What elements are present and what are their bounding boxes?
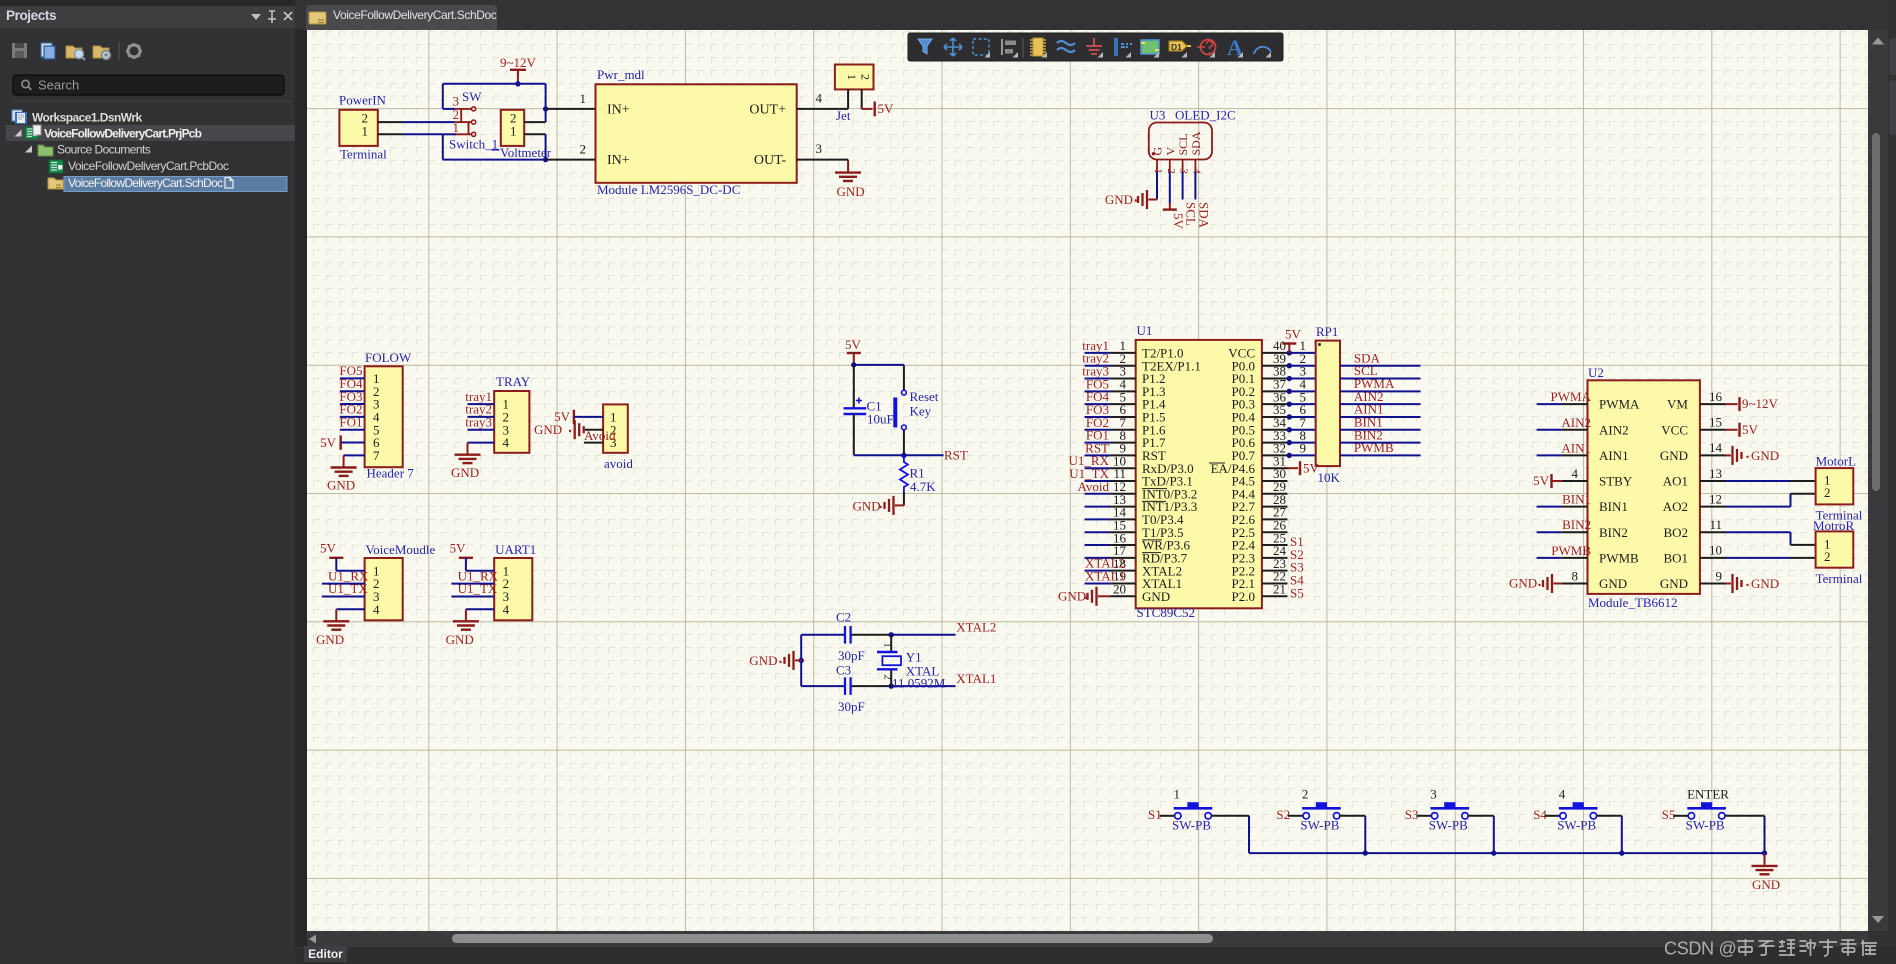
svg-text:U3: U3 <box>1150 108 1166 123</box>
svg-text:GND: GND <box>534 422 562 437</box>
svg-text:BO2: BO2 <box>1663 525 1688 540</box>
svg-text:5V: 5V <box>1303 461 1320 476</box>
svg-text:GND: GND <box>1751 448 1779 463</box>
svg-text:9~12V: 9~12V <box>1742 396 1779 411</box>
svg-text:PWMB: PWMB <box>1599 550 1639 565</box>
svg-text:Reset: Reset <box>910 389 939 404</box>
svg-text:12: 12 <box>1709 491 1722 506</box>
svg-text:1: 1 <box>1174 787 1181 802</box>
svg-text:PowerIN: PowerIN <box>339 93 387 108</box>
svg-text:S4: S4 <box>1533 807 1547 822</box>
svg-text:30pF: 30pF <box>838 699 865 714</box>
svg-text:Jet: Jet <box>836 108 851 123</box>
svg-text:5V: 5V <box>878 101 895 116</box>
svg-text:10uF: 10uF <box>867 412 894 427</box>
svg-text:11: 11 <box>1709 517 1722 532</box>
svg-text:5V: 5V <box>450 541 467 556</box>
svg-text:SW-PB: SW-PB <box>1686 818 1725 833</box>
svg-text:10K: 10K <box>1318 470 1341 485</box>
svg-text:tray3: tray3 <box>465 415 492 430</box>
svg-text:P2.0: P2.0 <box>1232 589 1255 604</box>
svg-text:PWMB: PWMB <box>1354 440 1394 455</box>
svg-text:UART1: UART1 <box>495 542 536 557</box>
svg-text:4.7K: 4.7K <box>910 479 936 494</box>
svg-text:5V: 5V <box>1171 213 1186 230</box>
svg-text:SW-PB: SW-PB <box>1172 818 1211 833</box>
svg-text:1: 1 <box>845 74 859 80</box>
svg-text:Switch_1: Switch_1 <box>449 137 498 152</box>
svg-text:BIN2: BIN2 <box>1599 525 1628 540</box>
svg-text:S1: S1 <box>1148 807 1162 822</box>
svg-text:1: 1 <box>510 123 517 138</box>
svg-text:OUT-: OUT- <box>754 153 786 168</box>
svg-text:STC89C52: STC89C52 <box>1137 605 1196 620</box>
svg-text:GND: GND <box>446 632 474 647</box>
svg-text:1: 1 <box>882 642 894 648</box>
svg-text:GND: GND <box>1509 575 1537 590</box>
svg-text:U1_TX: U1_TX <box>328 581 368 596</box>
svg-text:U1: U1 <box>1137 323 1153 338</box>
svg-text:U2: U2 <box>1588 365 1604 380</box>
svg-text:BIN1: BIN1 <box>1599 499 1628 514</box>
svg-text:PWMB: PWMB <box>1551 543 1591 558</box>
svg-text:4: 4 <box>503 435 510 450</box>
svg-text:3: 3 <box>1430 787 1437 802</box>
svg-text:TRAY: TRAY <box>496 374 531 389</box>
svg-text:GND: GND <box>327 478 355 493</box>
svg-text:IN+: IN+ <box>607 153 630 168</box>
svg-text:Avoid: Avoid <box>584 428 616 443</box>
svg-text:Terminal: Terminal <box>340 147 387 162</box>
svg-text:5V: 5V <box>1742 422 1759 437</box>
svg-text:1: 1 <box>362 123 369 138</box>
svg-text:13: 13 <box>1709 466 1722 481</box>
svg-text:VoiceFollowDeliveryCart.PrjPcb: VoiceFollowDeliveryCart.PrjPcb <box>44 127 202 141</box>
svg-text:STBY: STBY <box>1599 474 1633 489</box>
svg-text:10: 10 <box>1709 543 1722 558</box>
svg-text:GND: GND <box>1752 877 1780 892</box>
svg-text:5V: 5V <box>320 541 337 556</box>
svg-text:4: 4 <box>503 602 510 617</box>
svg-text:8: 8 <box>1572 568 1579 583</box>
svg-text:ENTER: ENTER <box>1687 787 1729 802</box>
svg-text:GND: GND <box>1105 192 1133 207</box>
svg-text:XTAL1: XTAL1 <box>1085 568 1125 583</box>
svg-text:GND: GND <box>1058 589 1086 604</box>
svg-text:Workspace1.DsnWrk: Workspace1.DsnWrk <box>32 111 142 125</box>
svg-text:AIN1: AIN1 <box>1561 440 1591 455</box>
svg-text:2: 2 <box>1824 549 1831 564</box>
svg-text:GND: GND <box>451 465 479 480</box>
svg-text:AO1: AO1 <box>1663 474 1688 489</box>
svg-text:14: 14 <box>1709 440 1723 455</box>
svg-text:5V: 5V <box>845 337 862 352</box>
svg-text:Avoid: Avoid <box>1077 479 1109 494</box>
svg-text:Module_TB6612: Module_TB6612 <box>1588 595 1678 610</box>
svg-text:C2: C2 <box>836 610 851 625</box>
svg-text:BIN1: BIN1 <box>1562 492 1591 507</box>
svg-text:VM: VM <box>1667 397 1688 412</box>
svg-text:C3: C3 <box>836 663 851 678</box>
svg-text:2: 2 <box>580 142 587 157</box>
svg-text:FO1: FO1 <box>339 415 362 430</box>
svg-text:4: 4 <box>1572 466 1579 481</box>
svg-text:VoiceFollowDeliveryCart.PcbDoc: VoiceFollowDeliveryCart.PcbDoc <box>68 159 229 173</box>
svg-text:SW-PB: SW-PB <box>1300 818 1339 833</box>
svg-text:2: 2 <box>1824 485 1831 500</box>
svg-text:Header 7: Header 7 <box>367 466 415 481</box>
svg-text:S5: S5 <box>1290 585 1304 600</box>
svg-text:GND: GND <box>1751 576 1779 591</box>
svg-text:Key: Key <box>910 404 932 419</box>
svg-text:4: 4 <box>373 602 380 617</box>
svg-text:GND: GND <box>316 632 344 647</box>
svg-text:Terminal: Terminal <box>1816 571 1863 586</box>
svg-text:AIN2: AIN2 <box>1561 415 1591 430</box>
svg-text:XTAL1: XTAL1 <box>956 671 996 686</box>
svg-text:Y1: Y1 <box>906 650 922 665</box>
svg-text:Search: Search <box>38 78 79 93</box>
svg-text:11.0592M: 11.0592M <box>892 676 946 691</box>
svg-text:PWMA: PWMA <box>1599 397 1640 412</box>
svg-text:4: 4 <box>816 91 823 106</box>
svg-text:GND: GND <box>749 653 777 668</box>
svg-text:avoid: avoid <box>604 456 633 471</box>
svg-text:OUT+: OUT+ <box>749 102 786 117</box>
svg-text:AIN2: AIN2 <box>1599 422 1629 437</box>
svg-text:U1_TX: U1_TX <box>458 581 498 596</box>
svg-text:Source Documents: Source Documents <box>57 143 151 157</box>
svg-text:GND: GND <box>1599 576 1627 591</box>
svg-text:BIN2: BIN2 <box>1562 517 1591 532</box>
svg-text:GND: GND <box>1660 448 1688 463</box>
svg-text:20: 20 <box>1113 581 1126 596</box>
svg-text:9~12V: 9~12V <box>500 55 537 70</box>
svg-text:IN+: IN+ <box>607 102 630 117</box>
svg-text:2: 2 <box>1302 787 1309 802</box>
svg-text:SDA: SDA <box>1196 202 1211 229</box>
svg-text:SDA: SDA <box>1189 131 1203 155</box>
svg-text:VoiceFollowDeliveryCart.SchDoc: VoiceFollowDeliveryCart.SchDoc <box>68 176 223 190</box>
svg-text:GND: GND <box>1142 589 1170 604</box>
svg-text:21: 21 <box>1273 581 1286 596</box>
svg-text:GND: GND <box>837 184 865 199</box>
svg-text:VCC: VCC <box>1661 422 1688 437</box>
svg-text:1: 1 <box>580 91 587 106</box>
svg-text:2: 2 <box>859 74 873 80</box>
svg-text:AIN1: AIN1 <box>1599 448 1629 463</box>
svg-text:XTAL2: XTAL2 <box>956 620 996 635</box>
svg-text:5V: 5V <box>1533 473 1550 488</box>
svg-text:SW: SW <box>462 89 482 104</box>
svg-text:Pwr_mdl: Pwr_mdl <box>597 67 645 82</box>
svg-text:SCL: SCL <box>1184 202 1199 226</box>
svg-text:7: 7 <box>373 448 380 463</box>
svg-text:SW-PB: SW-PB <box>1557 818 1596 833</box>
svg-text:S5: S5 <box>1662 807 1676 822</box>
svg-text:S2: S2 <box>1276 807 1290 822</box>
svg-text:Module LM2596S_DC-DC: Module LM2596S_DC-DC <box>597 182 740 197</box>
svg-text:SW-PB: SW-PB <box>1429 818 1468 833</box>
svg-text:16: 16 <box>1709 389 1723 404</box>
svg-text:PWMA: PWMA <box>1551 389 1592 404</box>
svg-text:RP1: RP1 <box>1316 324 1338 339</box>
svg-text:5V: 5V <box>320 435 337 450</box>
svg-text:GND: GND <box>853 498 881 513</box>
svg-text:MotorL: MotorL <box>1816 454 1857 469</box>
svg-text:VoiceMoudle: VoiceMoudle <box>366 542 436 557</box>
svg-text:3: 3 <box>816 141 823 156</box>
svg-text:OLED_I2C: OLED_I2C <box>1175 108 1236 123</box>
svg-text:4: 4 <box>1559 787 1566 802</box>
svg-text:30pF: 30pF <box>838 648 865 663</box>
svg-text:RST: RST <box>944 448 968 463</box>
svg-text:D1: D1 <box>1171 42 1182 52</box>
svg-text:9: 9 <box>1300 441 1307 456</box>
svg-text:FOLOW: FOLOW <box>365 350 412 365</box>
svg-text:BO1: BO1 <box>1663 550 1688 565</box>
svg-text:GND: GND <box>1660 576 1688 591</box>
svg-text:15: 15 <box>1709 415 1722 430</box>
svg-text:S3: S3 <box>1405 807 1419 822</box>
svg-text:9: 9 <box>1716 568 1723 583</box>
svg-text:AO2: AO2 <box>1663 499 1688 514</box>
